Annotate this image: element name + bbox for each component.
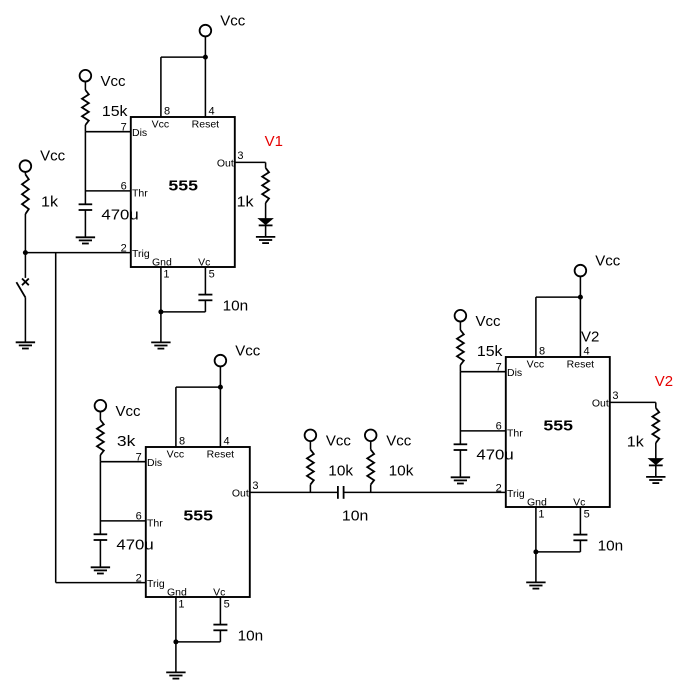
svg-text:Thr: Thr — [132, 187, 148, 199]
svg-text:Dis: Dis — [507, 367, 522, 379]
svg-text:Vcc: Vcc — [476, 313, 502, 330]
svg-text:5: 5 — [584, 509, 590, 521]
svg-text:555: 555 — [543, 418, 573, 435]
svg-text:8: 8 — [179, 435, 185, 447]
svg-text:470u: 470u — [116, 537, 153, 554]
svg-text:3: 3 — [237, 150, 243, 162]
svg-text:Out: Out — [217, 158, 234, 170]
svg-text:Vcc: Vcc — [386, 433, 412, 450]
svg-text:10n: 10n — [238, 627, 264, 644]
svg-text:1k: 1k — [627, 434, 645, 451]
svg-text:1: 1 — [163, 269, 169, 281]
svg-text:Vcc: Vcc — [220, 13, 246, 30]
svg-text:Reset: Reset — [207, 449, 235, 461]
svg-text:10k: 10k — [328, 463, 353, 480]
svg-text:1: 1 — [178, 599, 184, 611]
svg-text:Thr: Thr — [147, 517, 163, 529]
svg-text:8: 8 — [539, 345, 545, 357]
svg-text:470u: 470u — [101, 207, 138, 224]
svg-text:Vc: Vc — [573, 496, 585, 508]
svg-text:Vcc: Vcc — [101, 73, 127, 90]
svg-text:3: 3 — [612, 390, 618, 402]
svg-text:Thr: Thr — [507, 427, 523, 439]
svg-text:4: 4 — [584, 345, 590, 357]
svg-text:Reset: Reset — [567, 359, 595, 371]
svg-text:Vcc: Vcc — [326, 433, 352, 450]
svg-text:5: 5 — [209, 269, 215, 281]
svg-text:Vc: Vc — [198, 256, 210, 268]
svg-text:3k: 3k — [117, 433, 136, 450]
svg-text:15k: 15k — [477, 343, 503, 360]
svg-text:15k: 15k — [102, 103, 128, 120]
svg-text:1k: 1k — [237, 194, 255, 211]
svg-text:4: 4 — [209, 105, 215, 117]
svg-text:Vcc: Vcc — [116, 403, 142, 420]
svg-text:10n: 10n — [223, 297, 249, 314]
svg-text:Vc: Vc — [213, 586, 225, 598]
svg-text:Out: Out — [232, 488, 249, 500]
svg-text:Trig: Trig — [147, 578, 165, 590]
svg-text:Vcc: Vcc — [167, 449, 185, 461]
svg-text:3: 3 — [252, 480, 258, 492]
svg-text:Gnd: Gnd — [167, 586, 187, 598]
svg-text:Vcc: Vcc — [152, 119, 170, 131]
svg-text:Gnd: Gnd — [527, 496, 547, 508]
svg-text:Out: Out — [592, 398, 609, 410]
svg-text:Gnd: Gnd — [152, 256, 172, 268]
svg-text:555: 555 — [183, 508, 213, 525]
svg-text:Vcc: Vcc — [527, 359, 545, 371]
svg-text:Dis: Dis — [147, 457, 162, 469]
svg-text:10n: 10n — [598, 537, 624, 554]
svg-text:555: 555 — [168, 178, 198, 195]
svg-text:10k: 10k — [389, 463, 414, 480]
svg-text:Trig: Trig — [507, 488, 525, 500]
svg-text:V2: V2 — [581, 328, 599, 345]
svg-text:4: 4 — [224, 435, 230, 447]
svg-text:10n: 10n — [342, 508, 368, 525]
svg-text:Vcc: Vcc — [40, 147, 66, 164]
svg-text:5: 5 — [224, 599, 230, 611]
svg-text:V2: V2 — [655, 373, 673, 390]
svg-text:Vcc: Vcc — [595, 253, 621, 270]
svg-text:Reset: Reset — [192, 119, 220, 131]
svg-text:1k: 1k — [41, 194, 59, 211]
svg-text:Dis: Dis — [132, 127, 147, 139]
svg-text:1: 1 — [538, 509, 544, 521]
svg-text:Vcc: Vcc — [235, 343, 261, 360]
svg-text:Trig: Trig — [132, 248, 150, 260]
svg-text:8: 8 — [164, 105, 170, 117]
svg-text:470u: 470u — [476, 447, 513, 464]
svg-text:V1: V1 — [265, 133, 283, 150]
